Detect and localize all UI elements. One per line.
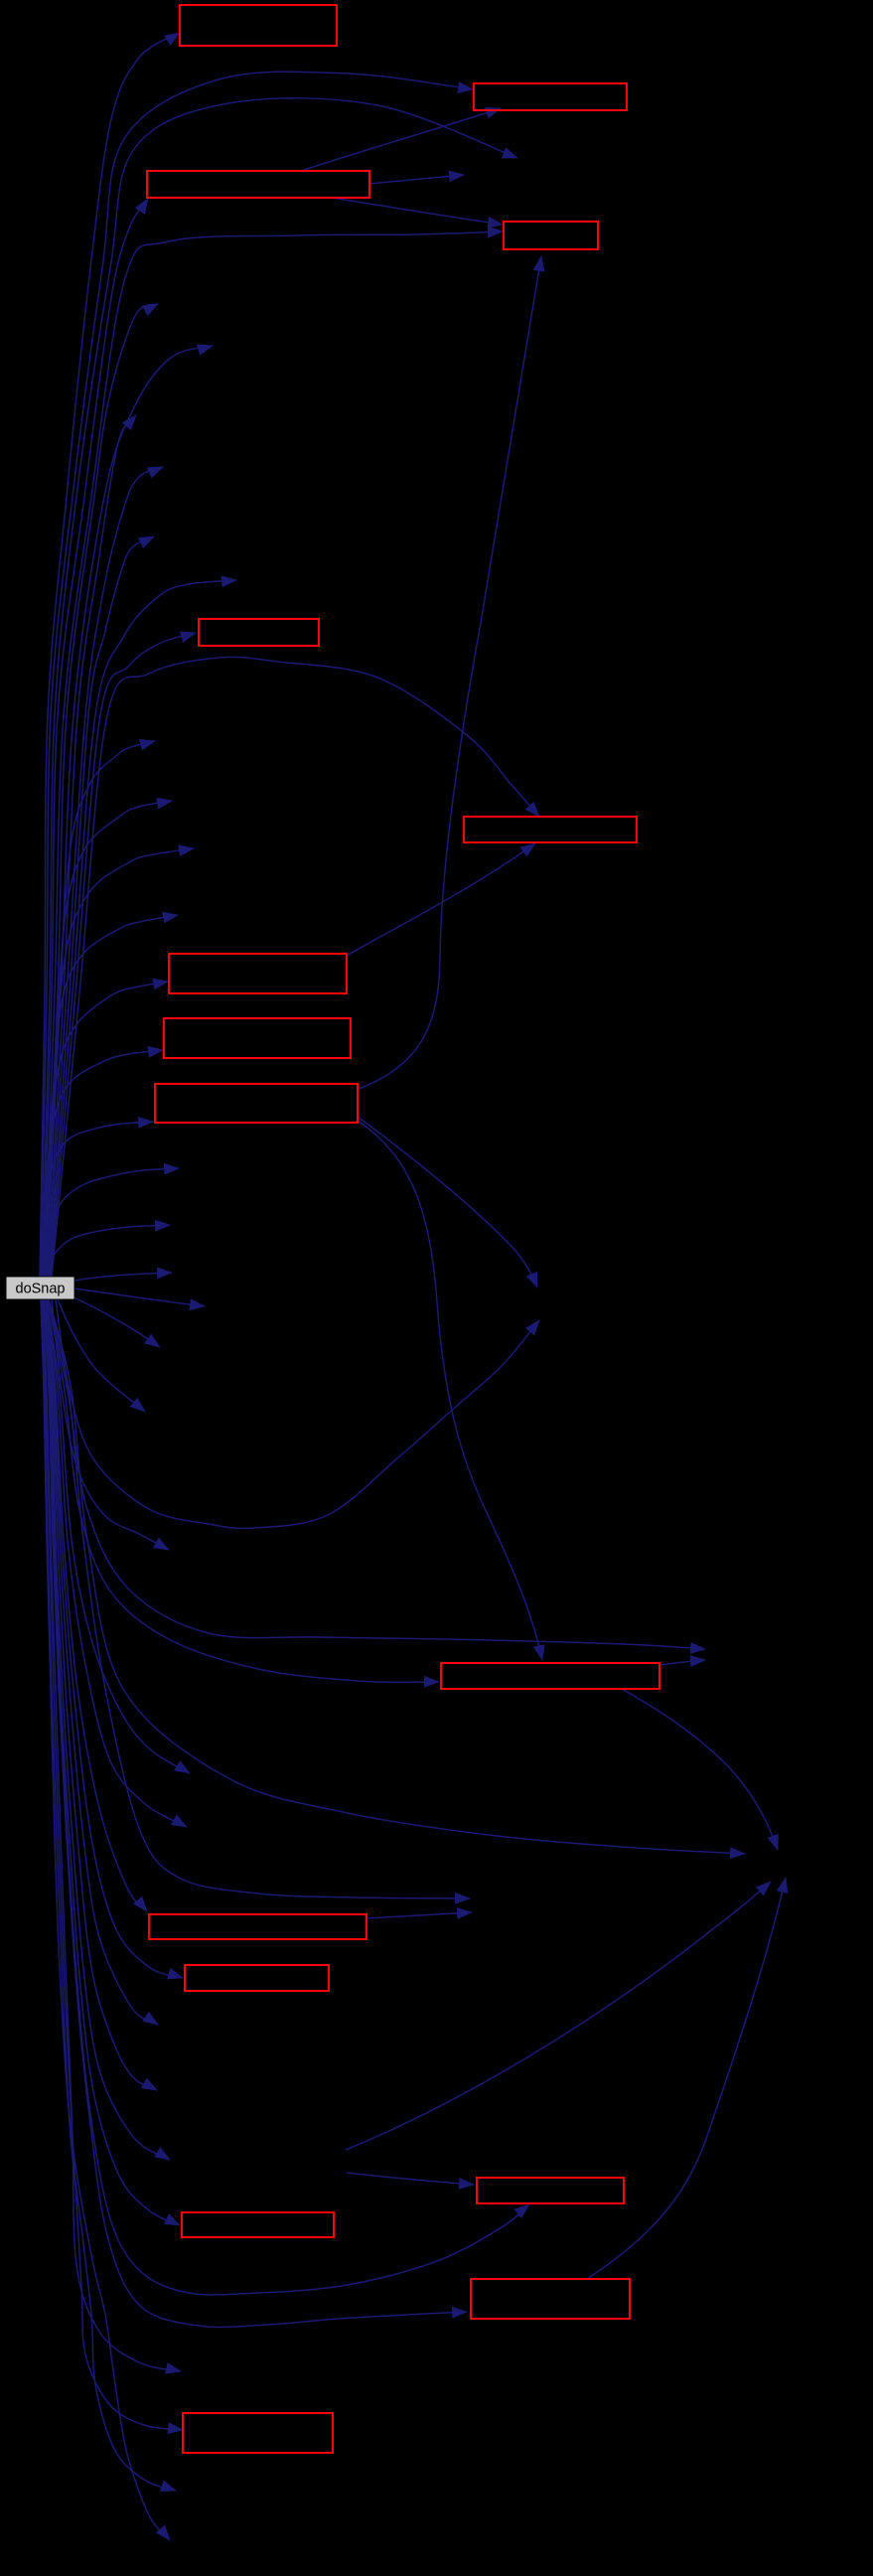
edge doSnap->nodeG	[44, 1299, 170, 2160]
edge box9->box11 top	[358, 1121, 542, 1660]
edge doSnap->F18	[52, 1299, 169, 1550]
node snap_multi_look	[147, 171, 369, 198]
edge doSnap->F12	[42, 1168, 179, 1277]
edge doSnap->F2	[46, 346, 213, 1277]
edge doSnap->F3	[47, 415, 136, 1277]
edge doSnap->F4	[48, 467, 163, 1277]
node getClosestCL	[504, 222, 598, 249]
edge box11->nodeE top	[622, 1689, 778, 1850]
edge doSnap->F10	[44, 848, 194, 1277]
edge doSnap->nodeE left	[49, 1299, 745, 1854]
node getClosestSL	[474, 83, 627, 110]
edge nodeG->box14 left	[347, 2173, 474, 2185]
edge doSnap->nodeD bottom	[56, 1299, 539, 1528]
node box11	[441, 1663, 659, 1689]
edge doSnap->F17	[58, 1299, 145, 1412]
edge doSnap->box14 bottom	[43, 1299, 529, 2295]
edge doSnap->F26	[41, 1299, 170, 2540]
edge doSnap->nodeF upper	[48, 1299, 705, 1649]
node box14	[477, 2178, 624, 2203]
edge doSnap->F1	[45, 304, 158, 1277]
edge nodeG->nodeE bottom	[346, 1882, 771, 2150]
node snap_getclosest	[180, 5, 337, 46]
node box13	[185, 1965, 329, 1991]
node box15	[182, 2212, 334, 2237]
edge doSnap->box2 left	[41, 72, 473, 1277]
node box17	[183, 2413, 333, 2453]
edge doSnap->box9	[40, 1122, 153, 1277]
edge doSnap->box8	[41, 1050, 163, 1277]
edge box3->box2 bottom	[304, 108, 501, 170]
node box16	[471, 2279, 630, 2319]
node box8	[164, 1018, 351, 1058]
edge doSnap->F13	[44, 1225, 170, 1277]
edge box9->nodeD top	[358, 1117, 537, 1288]
edge doSnap->F8	[46, 741, 155, 1277]
edge doSnap->box12	[46, 1299, 147, 1911]
edge doSnap->box15	[44, 1299, 180, 2225]
edge doSnap->F19	[47, 1299, 190, 1773]
edge box3->box4 left2	[333, 198, 503, 225]
node box6	[464, 817, 637, 842]
edge doSnap->box5	[51, 633, 196, 1277]
node box7	[169, 954, 347, 993]
edge doSnap->F22	[45, 1299, 157, 2090]
svg-text:doSnap: doSnap	[16, 1282, 66, 1297]
edge doSnap->nodeA upper	[49, 1299, 470, 1898]
edge doSnap->F9	[45, 801, 172, 1277]
edge box16->nodeE bottom2	[587, 1878, 786, 2279]
edge doSnap->box11 left	[48, 1299, 439, 1682]
edge doSnap->F20	[47, 1299, 187, 1827]
edge doSnap->F15	[74, 1288, 205, 1306]
node box9	[155, 1084, 358, 1123]
edge box7->box6 bottom	[347, 843, 535, 956]
edge doSnap->box7	[42, 982, 168, 1277]
node doSnap	[6, 1277, 74, 1299]
edge box9->box4 bottom	[359, 256, 541, 1089]
node box5	[199, 619, 319, 646]
edge box3->nodeC	[369, 175, 464, 184]
edge doSnap->box6 top	[52, 657, 539, 1277]
edge doSnap->box4 left	[44, 231, 503, 1277]
edge doSnap->F25	[41, 1299, 176, 2491]
edge doSnap->box3	[43, 199, 148, 1277]
edge box11->nodeF lower	[659, 1660, 705, 1665]
edge doSnap->box16 left	[43, 1299, 467, 2327]
edge doSnap->snap_getclosest	[40, 33, 180, 1277]
edge doSnap->nodeB	[42, 98, 517, 1277]
edge doSnap->box17	[42, 1299, 183, 2430]
edge doSnap->F24	[42, 1299, 181, 2371]
edge doSnap->F6	[50, 580, 236, 1277]
edge doSnap->F16	[73, 1297, 160, 1347]
edge doSnap->F21	[45, 1299, 158, 2025]
edge box12->nodeA lower	[366, 1912, 472, 1918]
edge doSnap->F5	[49, 536, 154, 1277]
edge doSnap->F11	[43, 915, 178, 1277]
edge doSnap->F14	[74, 1273, 172, 1281]
node box12	[149, 1914, 366, 1939]
edge doSnap->box13	[46, 1299, 183, 1978]
